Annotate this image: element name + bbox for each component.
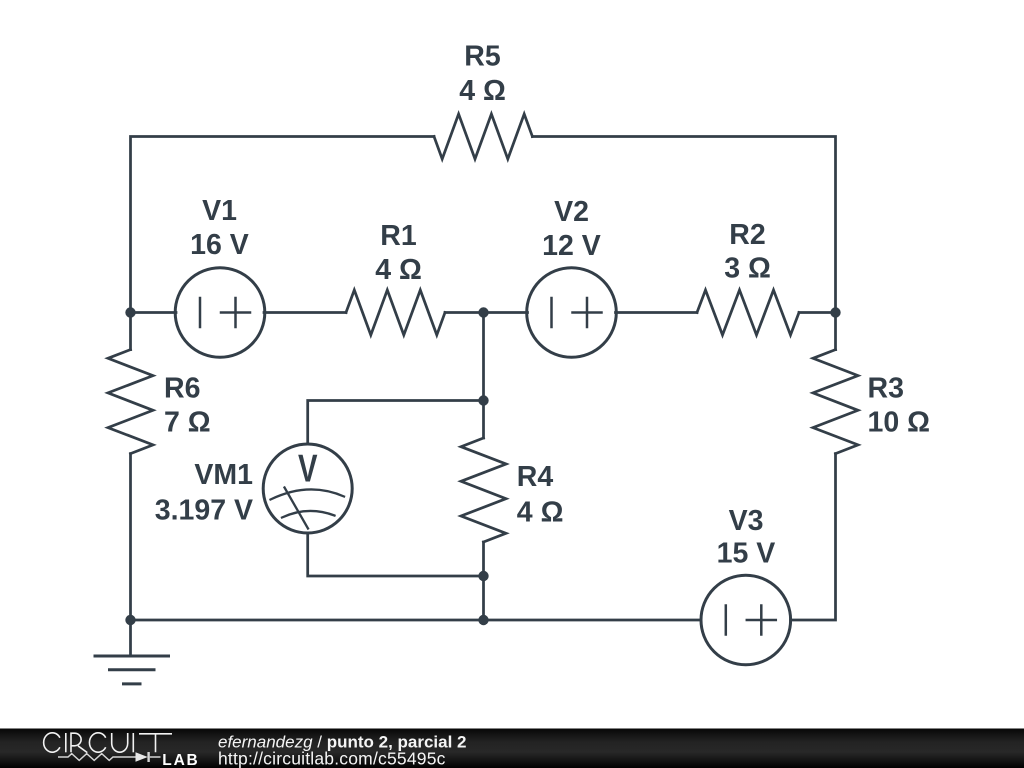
wire left-lower: R6 to ground node [129,454,132,620]
wire V2 right lead [616,311,698,314]
node junction VM1 top / R4 top [478,395,488,405]
footer black bar [0,729,1024,768]
wire V1 right lead [264,311,346,314]
svg-text:4 Ω: 4 Ω [459,75,506,107]
resistor R5 body [434,114,532,159]
logo letter C [44,733,60,752]
svg-text:V2: V2 [554,196,589,228]
wire VM1 bottom: circle bottom to node below R4 [308,533,484,576]
voltage source V2 plus sign [573,298,602,327]
voltmeter VM1 scale arc outer [271,489,345,499]
resistor R3 body [813,350,858,454]
voltmeter VM1 circle [263,444,352,533]
ground symbol stem [129,620,132,656]
resistor R1 body [346,290,445,335]
svg-text:V1: V1 [202,195,237,227]
node A junction R1/V2/center branch [478,307,488,317]
svg-text:12 V: 12 V [542,230,601,262]
ground symbol bar 3 [124,682,141,685]
logo wire after diode [150,756,161,758]
svg-text:R6: R6 [164,373,200,405]
wire top-right: top rail right half + right vertical upper [532,137,835,350]
resistor R6 body [108,350,153,454]
wire R4 top lead [482,401,485,439]
voltage source V3 plus sign [747,606,776,635]
logo letter T [139,734,172,753]
ground symbol bar 1 [95,655,169,658]
logo letter R [71,733,87,752]
wire right-lower: R3 to V3 plus terminal [791,454,836,620]
wire node A vertical drop [482,313,485,401]
wire VM1 top: circle top to node above R4 [308,401,484,445]
voltmeter VM1 scale arc inner [282,511,335,518]
svg-text:10 Ω: 10 Ω [868,407,930,439]
voltage source V1 minus bar [199,298,202,327]
resistor R4 body [461,438,506,542]
svg-text:3 Ω: 3 Ω [724,253,771,285]
svg-text:4 Ω: 4 Ω [375,254,422,286]
node junction V1/left rail [125,307,135,317]
voltage source V2 circle [527,268,617,358]
node junction R4 / bottom rail [478,615,488,625]
logo diode cathode bar [147,752,149,762]
svg-text:16 V: 16 V [190,229,249,261]
logo letter C 2 [89,733,105,752]
wire R1 to node A [445,311,484,314]
logo letter I [65,733,67,752]
voltage source V3 minus bar [725,606,728,635]
node junction VM1 bottom / R4 bottom [478,571,488,581]
svg-text:V3: V3 [729,505,764,537]
svg-text:R1: R1 [380,220,417,252]
wire R2 to right rail [799,311,836,314]
resistor R2 body [697,290,799,335]
voltmeter VM1 needle [285,488,309,529]
wire bottom rail: ground node to V3 minus terminal [131,619,702,622]
svg-text:http://circuitlab.com/c55495c: http://circuitlab.com/c55495c [218,749,446,768]
svg-text:VM1: VM1 [194,459,253,491]
voltage source V1 plus sign [221,298,250,327]
logo diode glyph [136,752,148,761]
wire V2 left lead [484,311,528,314]
svg-text:3.197 V: 3.197 V [155,495,253,527]
voltage source V2 minus bar [550,298,553,327]
svg-text:R2: R2 [729,219,765,251]
logo resistor glyph [58,754,136,761]
node ground junction [125,615,135,625]
svg-text:15 V: 15 V [717,538,776,570]
logo letter U [112,733,128,752]
voltage source V3 circle [701,575,791,665]
wire V1 left lead [131,311,177,314]
node junction R2/right rail [830,307,840,317]
logo letter I 2 [132,733,134,752]
svg-text:V: V [298,448,318,491]
svg-text:R5: R5 [464,41,501,73]
svg-text:R3: R3 [868,373,904,405]
voltage source V1 circle [175,268,265,358]
svg-text:7 Ω: 7 Ω [164,407,211,439]
ground symbol bar 2 [110,668,155,671]
wire R4 bottom lead to bottom rail [482,542,485,620]
svg-text:4 Ω: 4 Ω [517,497,564,529]
svg-text:LAB: LAB [162,752,199,768]
wire top-left: left vertical upper + top rail left half [131,137,435,350]
svg-text:R4: R4 [517,461,554,493]
